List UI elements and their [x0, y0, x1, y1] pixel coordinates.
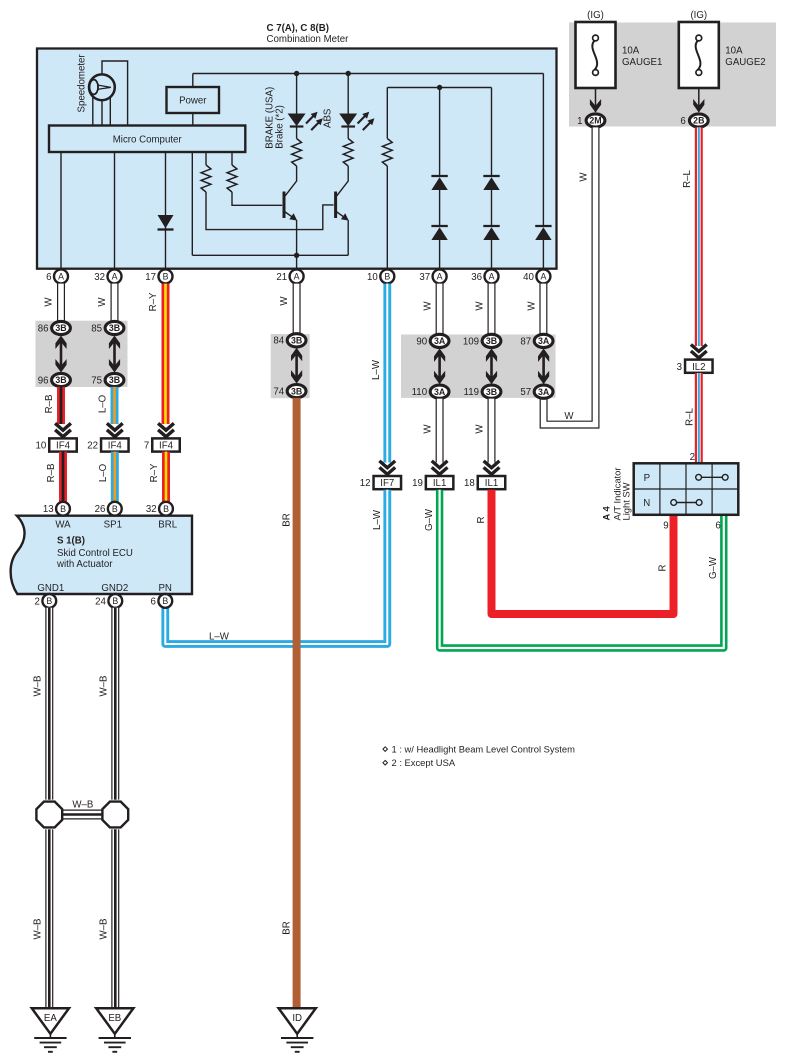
svg-text:A 4: A 4: [601, 505, 612, 520]
svg-text:A: A: [58, 272, 64, 282]
double arrow 86-96: [55, 336, 66, 373]
wire L-W pin10B to IF7: [383, 284, 391, 463]
label BRAKE (USA): [265, 87, 286, 149]
connector 109 3B: [463, 334, 501, 347]
junction 22 IF4: [87, 438, 128, 451]
ground EA: [32, 1008, 69, 1052]
ECU pin 24(B): [95, 594, 122, 608]
connector 75 3B: [91, 373, 124, 386]
svg-text:W–B: W–B: [33, 919, 44, 940]
label W-B: [33, 919, 44, 940]
svg-text:P: P: [644, 473, 650, 484]
svg-text:3B: 3B: [486, 336, 497, 346]
chevron arrow above IF4 10: [55, 423, 71, 436]
wire power to top rail: [192, 74, 194, 88]
meter pin 10(B): [367, 269, 394, 283]
wire R-L IL2 to switch pin 2: [695, 373, 703, 463]
svg-text:110: 110: [412, 387, 428, 398]
svg-text:GND1: GND1: [37, 583, 64, 594]
svg-text:G–W: G–W: [708, 556, 719, 579]
svg-text:G–W: G–W: [424, 508, 435, 531]
svg-text:L–O: L–O: [98, 463, 109, 482]
label W-B: [99, 676, 110, 697]
svg-text:GND2: GND2: [101, 583, 128, 594]
label ABS: [323, 108, 334, 128]
label R right: [658, 565, 669, 572]
svg-text:R–Y: R–Y: [149, 463, 160, 482]
svg-text:W: W: [423, 424, 434, 434]
resistor R5: [343, 139, 353, 167]
ECU pin 26(B): [95, 502, 122, 516]
connector 84 3B: [273, 334, 306, 347]
wire R-L fuse 2B to IL2: [695, 127, 703, 346]
wire MC to pin 6A: [60, 152, 62, 270]
svg-text:3B: 3B: [291, 386, 302, 396]
label R-B: [44, 395, 55, 414]
svg-text:with Actuator: with Actuator: [56, 559, 113, 570]
svg-text:R–L: R–L: [682, 170, 693, 188]
svg-text:W: W: [475, 301, 486, 311]
svg-text:2: 2: [690, 452, 695, 463]
svg-text:6: 6: [151, 596, 156, 607]
switch contact P row: [696, 474, 728, 480]
micro computer box: [49, 126, 245, 153]
svg-text:85: 85: [91, 323, 102, 334]
label R left: [476, 517, 487, 524]
double arrow 87-57: [538, 348, 549, 384]
wires speedometer to micro computer: [93, 97, 111, 126]
junction 12 IF7: [360, 476, 401, 489]
double arrow 84-74: [291, 348, 302, 384]
svg-text:3: 3: [677, 362, 682, 373]
svg-text:6: 6: [715, 521, 720, 532]
svg-text:PN: PN: [158, 583, 171, 594]
svg-text:W: W: [527, 301, 538, 311]
label G-W right: [708, 556, 719, 579]
switch contact N row: [671, 500, 702, 506]
connector 86 3B: [38, 321, 71, 334]
label R-Y: [149, 463, 160, 482]
wire W pin36A to 109-3B: [488, 284, 496, 335]
svg-text:GAUGE2: GAUGE2: [725, 57, 765, 68]
diode D1: [158, 215, 174, 230]
svg-text:2B: 2B: [693, 116, 704, 126]
label W-B: [99, 919, 110, 940]
double arrow 85-75: [109, 336, 120, 373]
resistor R2: [227, 152, 282, 205]
wire R-B 96 to IF4: [57, 387, 65, 424]
wire L-O 75 to IF4: [111, 387, 119, 424]
svg-text:W: W: [423, 301, 434, 311]
label L-W: [371, 359, 382, 380]
svg-text:R: R: [476, 517, 487, 524]
diode chain pin 36A: D4 D5: [483, 88, 499, 271]
connector 2B: [680, 114, 708, 127]
label W: [475, 424, 486, 434]
svg-text:W–B: W–B: [72, 800, 93, 811]
label W vertical: [579, 172, 590, 182]
svg-text:26: 26: [95, 504, 106, 515]
junction 3 IL2: [677, 360, 713, 373]
svg-text:W: W: [279, 296, 290, 306]
svg-text:96: 96: [38, 375, 49, 386]
svg-text:C 7(A), C 8(B): C 7(A), C 8(B): [267, 23, 329, 34]
svg-text:3B: 3B: [55, 375, 66, 385]
connector 96 3B: [38, 373, 71, 386]
connector 119 3B: [464, 385, 501, 398]
svg-text:IF7: IF7: [380, 478, 394, 489]
svg-text:86: 86: [38, 323, 49, 334]
svg-text:N: N: [643, 498, 650, 509]
junction 10 IF4: [35, 438, 76, 451]
wire BR 74-3B to ground ID: [293, 398, 301, 1008]
label A4 A/T Indicator Light SW: [601, 468, 632, 521]
svg-text:3B: 3B: [109, 375, 120, 385]
svg-text:3B: 3B: [486, 387, 497, 397]
resistor R3: [382, 88, 392, 271]
svg-text:1 : w/ Headlight Beam Level Co: 1 : w/ Headlight Beam Level Control Syst…: [392, 743, 576, 754]
svg-text:IF4: IF4: [159, 441, 174, 452]
ECU pin 13(B): [43, 502, 70, 516]
connector 2M: [577, 114, 605, 127]
wire W-B octagon to EB: [111, 829, 119, 1008]
wire W 119 to IL1: [488, 399, 496, 463]
ECU pin 6(B): [151, 594, 173, 608]
svg-text:119: 119: [464, 387, 479, 398]
fuse block panel: [569, 23, 776, 127]
connector 85 3B: [91, 321, 124, 334]
svg-text:W: W: [97, 297, 108, 307]
svg-text:3B: 3B: [291, 336, 302, 346]
svg-text:R–B: R–B: [44, 395, 55, 414]
chevron arrow above IL1 19: [432, 461, 448, 474]
connector 87 3A: [520, 334, 553, 347]
svg-text:A: A: [437, 272, 443, 282]
label switch pin 2: [690, 452, 695, 463]
chevron arrow above IF7: [379, 461, 395, 474]
fuse GAUGE1: [576, 10, 663, 113]
svg-text:IF4: IF4: [108, 441, 123, 452]
wire R-Y IF4 to pin 32B: [162, 452, 170, 502]
svg-text:37: 37: [419, 272, 430, 283]
junction dot emitter rail / node to pin 21A: [294, 253, 299, 270]
LED2 ABS: [339, 112, 374, 130]
label W: [475, 301, 486, 311]
wire W pin6A to 86-3B: [57, 284, 65, 322]
meter pin 32(A): [94, 269, 121, 283]
svg-text:Brake (*2): Brake (*2): [274, 105, 285, 149]
svg-text:W: W: [475, 424, 486, 434]
svg-text:(IG): (IG): [587, 10, 604, 21]
svg-text:ID: ID: [292, 1013, 302, 1024]
svg-text:BR: BR: [282, 513, 293, 526]
wire LED1 chain: [285, 74, 296, 196]
chevron arrow above IF4 7: [158, 423, 174, 436]
wire L-W IF7 to ECU pin PN: [165, 490, 387, 644]
svg-text:12: 12: [360, 478, 371, 489]
svg-text:19: 19: [412, 478, 423, 489]
svg-text:10A: 10A: [622, 46, 640, 57]
svg-text:A: A: [540, 272, 546, 282]
label L-O: [98, 394, 109, 413]
svg-text:B: B: [163, 272, 169, 282]
chevron arrow above IL2: [691, 345, 707, 358]
svg-text:B: B: [112, 596, 118, 606]
junction octagon left: [36, 802, 62, 828]
svg-text:R–L: R–L: [685, 408, 696, 426]
svg-text:2: 2: [35, 596, 40, 607]
svg-text:18: 18: [464, 478, 475, 489]
label R-L: [685, 408, 696, 426]
Skid Control ECU box S1(B): [11, 516, 192, 594]
svg-text:WA: WA: [55, 520, 71, 531]
svg-text:57: 57: [520, 387, 531, 398]
svg-text:6: 6: [46, 272, 51, 283]
meter pin 17(B): [145, 269, 172, 283]
svg-text:B: B: [384, 272, 390, 282]
svg-text:3B: 3B: [55, 323, 66, 333]
svg-text:L–W: L–W: [209, 631, 230, 642]
meter pin 37(A): [419, 269, 446, 283]
ground ID: [279, 1008, 316, 1052]
wire W-B pin 2B to junction EA: [45, 608, 53, 800]
wire MC to pin 17B: [165, 152, 167, 270]
svg-text:B: B: [162, 596, 168, 606]
connector block 3B left: [36, 321, 128, 387]
wire W-B octagon to EA: [45, 829, 53, 1008]
junction 18 IL1: [464, 476, 505, 489]
meter pin 21(A): [276, 269, 303, 283]
wire W fuse 2M to 57-3A: [544, 127, 596, 424]
power box: [167, 87, 220, 113]
wire W 110 to IL1: [436, 399, 444, 463]
svg-text:B: B: [163, 504, 169, 514]
label switch pin 9: [663, 521, 668, 532]
diode chain pin 37A: D2 D3: [431, 88, 447, 271]
svg-text:7: 7: [144, 441, 149, 452]
label W: [423, 424, 434, 434]
label W horizontal: [564, 411, 574, 422]
connector 90 3A: [416, 334, 449, 347]
svg-text:IF4: IF4: [56, 441, 71, 452]
svg-text:B: B: [46, 596, 52, 606]
chevron arrow above IF4 22: [107, 423, 123, 436]
label R-B: [46, 464, 57, 483]
svg-text:IL1: IL1: [433, 478, 446, 489]
ground EB: [96, 1008, 133, 1052]
svg-text:84: 84: [273, 336, 284, 347]
label L-O: [98, 463, 109, 482]
LED1 BRAKE: [288, 112, 323, 130]
ECU pin 2(B): [35, 594, 57, 608]
svg-text:W–B: W–B: [99, 919, 110, 940]
combination meter box C7(A) C8(B): [37, 23, 557, 269]
svg-text:10: 10: [367, 272, 378, 283]
wire R-B IF4 to pin 13B: [59, 452, 67, 502]
resistor R1: [201, 152, 334, 230]
svg-text:A: A: [294, 272, 300, 282]
svg-text:22: 22: [87, 441, 98, 452]
svg-text:13: 13: [43, 504, 54, 515]
transistor Q2: [336, 192, 349, 256]
svg-text:IL1: IL1: [485, 478, 498, 489]
svg-text:L–O: L–O: [98, 394, 109, 413]
label W: [423, 301, 434, 311]
svg-text:9: 9: [663, 521, 668, 532]
connector 57 3A: [520, 385, 553, 398]
svg-text:10A: 10A: [725, 46, 743, 57]
rail 2: [387, 85, 491, 90]
diode chain pin 40A: D6: [535, 74, 551, 271]
svg-text:SP1: SP1: [104, 520, 122, 531]
wire power to micro computer: [192, 113, 194, 126]
label switch pin 6: [715, 521, 720, 532]
svg-text:(IG): (IG): [690, 10, 707, 21]
footnote 1: [383, 743, 575, 754]
svg-text:Light SW: Light SW: [621, 482, 632, 520]
label G-W left: [424, 508, 435, 531]
double arrow 109-119: [486, 348, 497, 384]
label W: [279, 296, 290, 306]
svg-text:87: 87: [520, 336, 531, 347]
svg-text:ABS: ABS: [323, 108, 334, 128]
wire W-B pin 24B to junction EB: [111, 608, 119, 800]
svg-text:24: 24: [95, 596, 106, 607]
svg-text:6: 6: [680, 116, 685, 127]
resistor R4: [292, 139, 302, 167]
meter pin 40(A): [523, 269, 550, 283]
svg-text:3A: 3A: [434, 336, 446, 346]
meter pin 36(A): [471, 269, 498, 283]
label BR upper: [282, 513, 293, 526]
svg-text:W: W: [564, 411, 574, 422]
svg-text:2M: 2M: [589, 116, 601, 126]
wire speedometer loop: [102, 61, 128, 126]
svg-text:EA: EA: [44, 1013, 57, 1024]
fuse GAUGE2: [679, 10, 766, 113]
svg-text:75: 75: [91, 375, 102, 386]
label L-W below IF7: [372, 509, 383, 530]
ECU pin 32(B): [146, 502, 173, 516]
svg-text:W–B: W–B: [99, 676, 110, 697]
wire W pin21A to 84-3B: [293, 284, 301, 334]
junction 7 IF4: [144, 438, 180, 451]
label W: [97, 297, 108, 307]
svg-text:Power: Power: [179, 96, 207, 107]
chevron arrow above IL1 18: [484, 461, 500, 474]
svg-text:L–W: L–W: [371, 359, 382, 380]
svg-text:3A: 3A: [434, 387, 446, 397]
wire MC to pin 32A: [114, 152, 116, 270]
wire R-Y pin17B to IF4: [162, 284, 170, 424]
svg-text:L–W: L–W: [372, 509, 383, 530]
svg-text:Skid Control ECU: Skid Control ECU: [57, 548, 133, 559]
svg-text:BR: BR: [282, 921, 293, 934]
svg-text:21: 21: [276, 272, 287, 283]
label L-W horizontal: [209, 631, 230, 642]
svg-text:1: 1: [577, 116, 582, 127]
svg-text:17: 17: [145, 272, 156, 283]
junction dots top rail: [294, 71, 351, 76]
wire W pin40A to 87-3A: [539, 284, 547, 335]
label W-B: [33, 676, 44, 697]
svg-text:IL2: IL2: [692, 362, 705, 373]
svg-text:Speedometer: Speedometer: [77, 54, 88, 113]
label R-Y: [148, 292, 159, 311]
svg-text:32: 32: [94, 272, 105, 283]
svg-text:3A: 3A: [538, 336, 550, 346]
wire W pin32A to 85-3B: [111, 284, 119, 322]
A/T indicator light switch A4: [634, 463, 739, 515]
transistor Q1: [284, 192, 297, 256]
top rail: [193, 73, 544, 75]
svg-text:S 1(B): S 1(B): [57, 536, 85, 547]
svg-text:74: 74: [273, 387, 284, 398]
wire W-B junction link: [61, 810, 104, 820]
wire G-W IL1 to switch pin 6: [440, 490, 724, 648]
svg-text:W: W: [44, 297, 55, 307]
speedometer: [77, 54, 115, 113]
junction 19 IL1: [412, 476, 453, 489]
svg-text:36: 36: [471, 272, 482, 283]
svg-text:EB: EB: [108, 1013, 121, 1024]
label W-B link: [72, 800, 93, 811]
svg-text:GAUGE1: GAUGE1: [622, 57, 662, 68]
svg-text:3B: 3B: [109, 323, 120, 333]
wire MC to emitter rail: [191, 152, 193, 255]
svg-text:W–B: W–B: [33, 676, 44, 697]
connector 110 3A: [412, 385, 449, 398]
wire W pin37A to 90-3A: [436, 284, 444, 335]
svg-text:A: A: [489, 272, 495, 282]
svg-text:R–Y: R–Y: [148, 292, 159, 311]
svg-text:B: B: [112, 504, 118, 514]
svg-text:Combination Meter: Combination Meter: [267, 34, 350, 45]
footnote 2: [383, 757, 456, 768]
connector block 3A/3B right: [401, 335, 556, 398]
connector 74 3B: [273, 385, 306, 398]
svg-text:BRL: BRL: [158, 520, 177, 531]
meter pin 6(A): [46, 269, 68, 283]
label W: [527, 301, 538, 311]
svg-text:109: 109: [463, 336, 479, 347]
svg-text:2 : Except USA: 2 : Except USA: [392, 757, 456, 768]
wire R IL1 to switch pin 9: [492, 490, 674, 614]
junction octagon right: [102, 802, 128, 828]
double arrow 90-110: [434, 348, 445, 384]
svg-text:90: 90: [416, 336, 427, 347]
svg-text:R: R: [658, 565, 669, 572]
label R-L: [682, 170, 693, 188]
svg-text:3A: 3A: [538, 387, 550, 397]
wire L-O IF4 to pin 26B: [111, 452, 119, 502]
svg-text:A: A: [112, 272, 118, 282]
svg-text:B: B: [60, 504, 66, 514]
wire LED2 chain: [337, 74, 348, 196]
svg-text:32: 32: [146, 504, 157, 515]
connector block 3B middle: [271, 334, 310, 398]
svg-text:W: W: [579, 172, 590, 182]
label W: [44, 297, 55, 307]
svg-text:R–B: R–B: [46, 464, 57, 483]
svg-text:40: 40: [523, 272, 534, 283]
label BR lower: [282, 921, 293, 934]
svg-text:Micro Computer: Micro Computer: [113, 135, 183, 146]
svg-text:10: 10: [35, 441, 46, 452]
emitter rail: [192, 254, 348, 256]
